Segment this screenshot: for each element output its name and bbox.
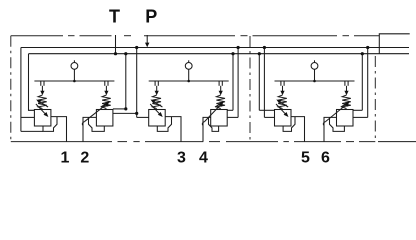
relief valve RV1B inlet stub (104, 81, 106, 86)
wire: section 3 line (275, 80, 355, 82)
P inlet arrow (145, 43, 149, 48)
relief valve RV2B body (211, 110, 228, 127)
junction dot b23L T on rail (231, 52, 234, 55)
relief valve RV2B check loop (209, 117, 219, 131)
relief valve RV3B spring (342, 95, 351, 109)
wire: P branch to valve RV1A (21, 116, 35, 118)
relief valve RV2B spring (216, 95, 225, 109)
relief valve RV1B pilot arrow (82, 122, 84, 126)
wire: P riser b12 (136, 48, 138, 118)
wire: T riser b23R (258, 54, 260, 111)
junction dot b23R P on rail (263, 46, 266, 49)
wire: P port stub (146, 35, 148, 44)
relief valve RV3B inlet stub (344, 81, 346, 86)
wire: P riser end branch (353, 116, 368, 118)
svg-text:2: 2 (80, 150, 89, 167)
relief valve RV2B outlet wire (203, 117, 211, 141)
relief valve RV2A spring (152, 95, 161, 109)
gauge point G3 (311, 63, 318, 70)
wire: T port stub (115, 35, 117, 54)
enclosure border right (dash-dot) (374, 56, 376, 142)
relief valve RV1A check loop (43, 117, 57, 132)
relief valve RV2A check loop (157, 117, 171, 132)
wire: T riser end (361, 54, 363, 111)
junction dot section 3 line (313, 80, 316, 83)
relief valve RV2B pilot arrow (202, 122, 204, 126)
wire: P wrap left side (20, 48, 22, 132)
gauge point G1 (71, 63, 78, 70)
relief valve RV2A inlet arrow (155, 91, 159, 95)
relief valve RV3A inlet arrow (280, 91, 284, 95)
junction dot b23R T on rail (258, 52, 261, 55)
wire: T return rail (29, 53, 410, 55)
junction dot b12 T riser bottom (124, 107, 127, 110)
relief valve RV3A inlet stub (280, 81, 282, 86)
relief valve RV1A inlet stub (40, 81, 42, 86)
relief valve RV1A body (34, 110, 51, 127)
gauge point G1 stub (73, 60, 75, 62)
relief valve RV1A outlet wire (51, 117, 67, 142)
wire: section 2 line (149, 80, 229, 82)
junction dot section 1 line (73, 80, 76, 83)
gauge point G3 stub (314, 60, 316, 62)
relief valve RV3B check loop (330, 117, 345, 131)
relief valve RV1B inlet line (105, 86, 107, 91)
svg-text:P: P (145, 7, 157, 27)
svg-text:1: 1 (61, 150, 70, 167)
relief valve RV2A inlet stub (154, 81, 156, 86)
relief valve RV1A spring (38, 95, 47, 109)
svg-text:5: 5 (301, 150, 310, 167)
enclosure border left (dash-dot) (10, 36, 12, 142)
enclosure border bottom (dash-dot) (11, 141, 112, 143)
relief valve RV1B body (96, 110, 113, 127)
relief valve RV1A pilot arrow (36, 104, 47, 115)
junction dot b23L P on rail (237, 46, 240, 49)
relief valve RV3A pilot arrow (276, 104, 287, 115)
relief valve RV3A adjust arrow (278, 101, 288, 107)
wire: T riser b23R branch (259, 109, 274, 111)
wire: tank gallery section 1 (21, 130, 43, 132)
wire: P riser b23L (237, 48, 239, 118)
relief valve RV1A adjust arrow (38, 101, 48, 107)
relief valve RV3A inlet line (282, 86, 284, 91)
junction dot section 2 line (187, 80, 190, 83)
relief valve RV1B outlet wire (83, 117, 96, 141)
relief valve RV3B outlet wire (324, 117, 337, 141)
wire: next-block link bottom (378, 141, 416, 143)
relief valve RV3B pilot arrow (323, 122, 325, 126)
relief valve RV3B inlet arrow (344, 91, 348, 95)
svg-text:4: 4 (199, 150, 208, 167)
wire: T riser b23L (232, 54, 234, 111)
relief valve RV2A body (149, 110, 166, 127)
enclosure border top (dash-dot) (11, 35, 63, 37)
relief valve RV2B inlet arrow (219, 91, 223, 95)
relief valve RV1B spring (102, 95, 111, 109)
svg-text:3: 3 (177, 150, 186, 167)
relief valve RV1B inlet arrow (104, 91, 108, 95)
wire: P supply rail (21, 47, 409, 49)
gauge point G2 stub (188, 60, 190, 62)
relief valve RV1A inlet line (41, 86, 43, 91)
svg-text:6: 6 (321, 150, 330, 167)
wire: P riser end (367, 48, 369, 118)
wire: P riser b23R branch (264, 116, 274, 118)
wire: T riser b12 branch (113, 108, 126, 110)
relief valve RV2A inlet line (156, 86, 158, 91)
relief valve RV3A spring (278, 95, 287, 109)
wire: section 1 line (34, 80, 114, 82)
wire: T riser b23L branch (227, 109, 233, 111)
junction dot end P on rail (366, 46, 369, 49)
wire: next-block link top (379, 34, 409, 54)
wire: P riser b12 branch (137, 116, 149, 118)
gauge point G2 (185, 63, 192, 70)
junction dot b12 T on rail (124, 52, 127, 55)
wire: P riser b23R (263, 48, 265, 118)
junction dot RV1B drain on P riser (135, 112, 138, 115)
relief valve RV3B adjust arrow (341, 103, 348, 107)
junction dot b12 P on rail (135, 46, 138, 49)
relief valve RV3A check loop (283, 117, 295, 132)
relief valve RV2B inlet stub (218, 81, 220, 86)
wire: gauge G2 drop (188, 69, 190, 81)
relief valve RV2B inlet line (220, 86, 222, 91)
wire: T wrap left side (29, 54, 35, 111)
relief valve RV3A outlet wire (291, 117, 305, 142)
wire: gauge G3 drop (314, 69, 316, 81)
relief valve RV2A outlet wire (165, 117, 181, 142)
wire: T riser end branch (353, 109, 362, 111)
wire: T riser b12 (125, 54, 127, 109)
svg-text:T: T (109, 7, 120, 27)
wire: P riser b23L branch (227, 116, 238, 118)
junction dot end T on rail (361, 52, 364, 55)
wire: gauge G1 drop (73, 69, 75, 81)
relief valve RV3B inlet line (346, 86, 348, 91)
relief valve RV2B adjust arrow (215, 103, 222, 107)
wire: valve RV1B drain to P riser (113, 112, 137, 114)
relief valve RV1B adjust arrow (101, 103, 108, 107)
section separator (dash-dot) (249, 36, 251, 142)
relief valve RV1A inlet arrow (40, 91, 44, 95)
junction dot T stub on T rail (114, 52, 117, 55)
relief valve RV1B check loop (89, 117, 105, 131)
relief valve RV3B body (337, 110, 354, 127)
relief valve RV2A pilot arrow (150, 104, 161, 115)
relief valve RV2A adjust arrow (152, 101, 162, 107)
relief valve RV3A body (275, 110, 292, 127)
